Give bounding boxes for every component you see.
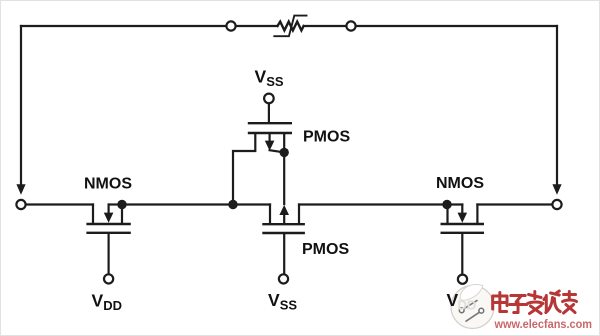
- wire right vertical drop: [556, 26, 558, 185]
- wire middle rail segment C: [299, 203, 447, 205]
- terminal circle middle-right: [552, 200, 561, 209]
- wire top rail left segment: [21, 25, 226, 27]
- svg-text:VDD: VDD: [92, 291, 122, 314]
- wire middle rail segment A: [26, 203, 93, 205]
- wire left vertical drop: [20, 26, 22, 185]
- transistor Q1 left NMOS: [88, 205, 130, 275]
- varistor RV1 zigzag body: [278, 22, 304, 31]
- wire top rail right segment: [356, 25, 557, 27]
- svg-text:PMOS: PMOS: [302, 241, 349, 258]
- terminal circle top-right: [346, 21, 355, 30]
- arrowhead down left: [16, 184, 25, 195]
- svg-text:PMOS: PMOS: [303, 129, 350, 146]
- svg-text:DD: DD: [458, 298, 477, 313]
- svg-text:NMOS: NMOS: [84, 176, 132, 193]
- svg-text:NMOS: NMOS: [436, 175, 484, 192]
- wire top rail between left terminal and varistor: [236, 25, 278, 27]
- terminal circle VSS top: [264, 94, 274, 104]
- svg-text:www.elecfans.com: www.elecfans.com: [494, 317, 592, 331]
- wire middle rail segment B: [122, 203, 270, 205]
- terminal circle VSS bottom: [279, 274, 288, 283]
- watermark text dianzifashaoyou: [493, 291, 577, 314]
- wire middle rail segment D: [477, 203, 552, 205]
- svg-text:VSS: VSS: [255, 67, 284, 90]
- transistor Q2 top PMOS: [233, 103, 291, 204]
- node source dot Q4: [442, 200, 451, 209]
- transistor Q4 right NMOS: [442, 205, 483, 275]
- node source dot Q1: [117, 200, 126, 209]
- wire top rail between varistor and right terminal: [304, 25, 347, 27]
- node junction dot left-of-center: [228, 200, 237, 209]
- node bulk dot Q2: [280, 148, 289, 157]
- arrowhead down right: [552, 184, 561, 195]
- varistor RV1 strike-through: [274, 16, 306, 37]
- terminal circle middle-left: [16, 200, 25, 209]
- svg-text:VSS: VSS: [268, 290, 297, 313]
- terminal circle V right: [458, 275, 467, 284]
- transistor Q3 center PMOS: [264, 205, 304, 275]
- terminal circle VDD left: [104, 274, 113, 283]
- watermark logo elecfans: [451, 285, 494, 329]
- terminal circle top-left: [226, 21, 235, 30]
